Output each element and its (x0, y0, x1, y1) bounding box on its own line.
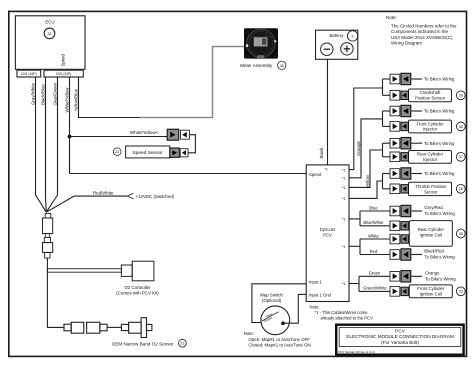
svg-text:Front Cylinder: Front Cylinder (417, 286, 445, 291)
svg-text:*1: *1 (342, 168, 346, 172)
svg-text:Red/White: Red/White (93, 191, 114, 196)
svg-text:To Bike's Wiring: To Bike's Wiring (424, 211, 455, 216)
svg-text:White/Yellow: White/Yellow (65, 87, 70, 113)
svg-text:(For Yamaha Bolt): (For Yamaha Bolt) (381, 340, 419, 345)
svg-text:To Bike's Wiring: To Bike's Wiring (424, 254, 455, 259)
svg-text:Ignition Coil: Ignition Coil (420, 291, 442, 296)
svg-text:*1: *1 (342, 282, 346, 286)
svg-text:Note:: Note: (310, 304, 320, 309)
svg-text:Speed: Speed (309, 172, 322, 177)
svg-text:22: 22 (115, 150, 119, 154)
svg-text:OEM Narrow Band O2 Sensor: OEM Narrow Band O2 Sensor (112, 341, 174, 346)
svg-text:Orange: Orange (425, 271, 440, 276)
svg-text:36: 36 (459, 125, 463, 129)
svg-text:26: 26 (459, 94, 463, 98)
svg-text:CN2 (34P): CN2 (34P) (56, 72, 72, 76)
svg-text:To Bike's Wiring: To Bike's Wiring (425, 276, 456, 281)
svg-text:(Comes with PCV Kit): (Comes with PCV Kit) (116, 290, 159, 295)
svg-text:To Bike's Wiring: To Bike's Wiring (424, 109, 455, 114)
svg-text:Blue: Blue (369, 205, 378, 210)
svg-text:Yellow: Yellow (365, 174, 370, 188)
svg-text:32: 32 (47, 31, 51, 36)
svg-text:Wiring Diagram: Wiring Diagram (391, 40, 422, 45)
svg-text:Map Switch: Map Switch (260, 293, 283, 298)
svg-text:5: 5 (352, 34, 354, 39)
svg-text:*1: *1 (342, 177, 346, 181)
svg-text:Closed: Map#2 or AutoTune ON: Closed: Map#2 or AutoTune ON (248, 342, 310, 347)
svg-text:USA Model 2014 XVS95CE(C): USA Model 2014 XVS95CE(C) (391, 35, 453, 40)
svg-text:+12VDC (Switched): +12VDC (Switched) (136, 194, 175, 199)
svg-text:Sensor: Sensor (424, 189, 438, 194)
svg-text:*1: *1 (342, 218, 346, 222)
svg-text:Gray/White: Gray/White (31, 82, 36, 105)
svg-text:DynoJet: DynoJet (320, 227, 336, 232)
svg-text:28: 28 (459, 187, 463, 191)
svg-text:Injector: Injector (423, 127, 438, 132)
svg-text:Injector: Injector (423, 157, 438, 162)
svg-text:40: 40 (280, 64, 284, 68)
svg-text:*1: *1 (342, 197, 346, 201)
svg-text:23: 23 (180, 342, 184, 346)
svg-text:Orange: Orange (356, 140, 361, 156)
svg-text:ECU: ECU (45, 19, 54, 24)
svg-text:Rear Cylinder: Rear Cylinder (418, 227, 445, 232)
svg-text:Gray/Green: Gray/Green (53, 82, 58, 105)
svg-text:Note:: Note: (244, 331, 255, 336)
svg-text:Red: Red (370, 249, 378, 254)
svg-text:Note:: Note: (386, 15, 397, 20)
svg-text:already attached to the PCV: already attached to the PCV (321, 315, 374, 320)
svg-text:Open: Map#1 or AutoTune OFF: Open: Map#1 or AutoTune OFF (248, 337, 310, 342)
svg-text:*1: *1 (325, 168, 329, 172)
svg-text:Components indicated in the: Components indicated in the (391, 29, 449, 34)
svg-text:To Bike's Wiring: To Bike's Wiring (424, 77, 455, 82)
svg-text:Grey/Red: Grey/Red (424, 205, 443, 210)
svg-text:To Bike's Wiring: To Bike's Wiring (424, 171, 455, 176)
svg-text:Black: Black (319, 147, 324, 159)
svg-text:(Optional): (Optional) (262, 298, 282, 303)
svg-text:PCV: PCV (395, 328, 406, 333)
svg-text:Ignition Coil: Ignition Coil (420, 233, 442, 238)
svg-text:PCV Module Wiring v1.0 (c): PCV Module Wiring v1.0 (c) (338, 350, 375, 354)
svg-text:Speed Sensor: Speed Sensor (132, 150, 163, 156)
svg-text:35: 35 (459, 232, 463, 236)
svg-text:37: 37 (459, 155, 463, 159)
svg-text:Position Sensor: Position Sensor (415, 95, 446, 100)
svg-text:Throttle Position: Throttle Position (415, 184, 447, 189)
svg-text:Black/Red: Black/Red (424, 249, 444, 254)
svg-text:White: White (368, 233, 379, 238)
svg-text:Battery: Battery (330, 33, 345, 38)
svg-text:Input 1: Input 1 (309, 279, 322, 284)
svg-text:*1: *1 (342, 186, 346, 190)
svg-text:Input 1 Gnd: Input 1 Gnd (309, 292, 332, 297)
svg-text:Green/White: Green/White (363, 286, 387, 291)
svg-text:*1: *1 (342, 245, 346, 249)
svg-text:Speed: Speed (61, 53, 66, 66)
svg-text:Green: Green (369, 271, 381, 276)
svg-text:Yellow/Blue: Yellow/Blue (74, 88, 79, 111)
svg-text:33: 33 (459, 290, 463, 294)
svg-text:The Circled Numbers refer to t: The Circled Numbers refer to the (391, 24, 457, 29)
svg-text:ELECTRONIC MODULE CONNECTION D: ELECTRONIC MODULE CONNECTION DIAGRAM (346, 334, 454, 339)
svg-text:White/Yellow<: White/Yellow< (130, 130, 159, 135)
svg-text:To Bike's Wiring: To Bike's Wiring (424, 141, 455, 146)
svg-text:Blue/White: Blue/White (363, 220, 384, 225)
svg-text:PCV: PCV (323, 233, 332, 238)
svg-text:Black/Blue: Black/Blue (41, 84, 46, 105)
svg-text:O2 Controller: O2 Controller (124, 285, 151, 290)
svg-text:CN1 (16P): CN1 (16P) (21, 72, 37, 76)
svg-text:Meter Assembly: Meter Assembly (240, 63, 273, 68)
svg-text:*1 - This Cables/Wires come: *1 - This Cables/Wires come (315, 310, 369, 315)
